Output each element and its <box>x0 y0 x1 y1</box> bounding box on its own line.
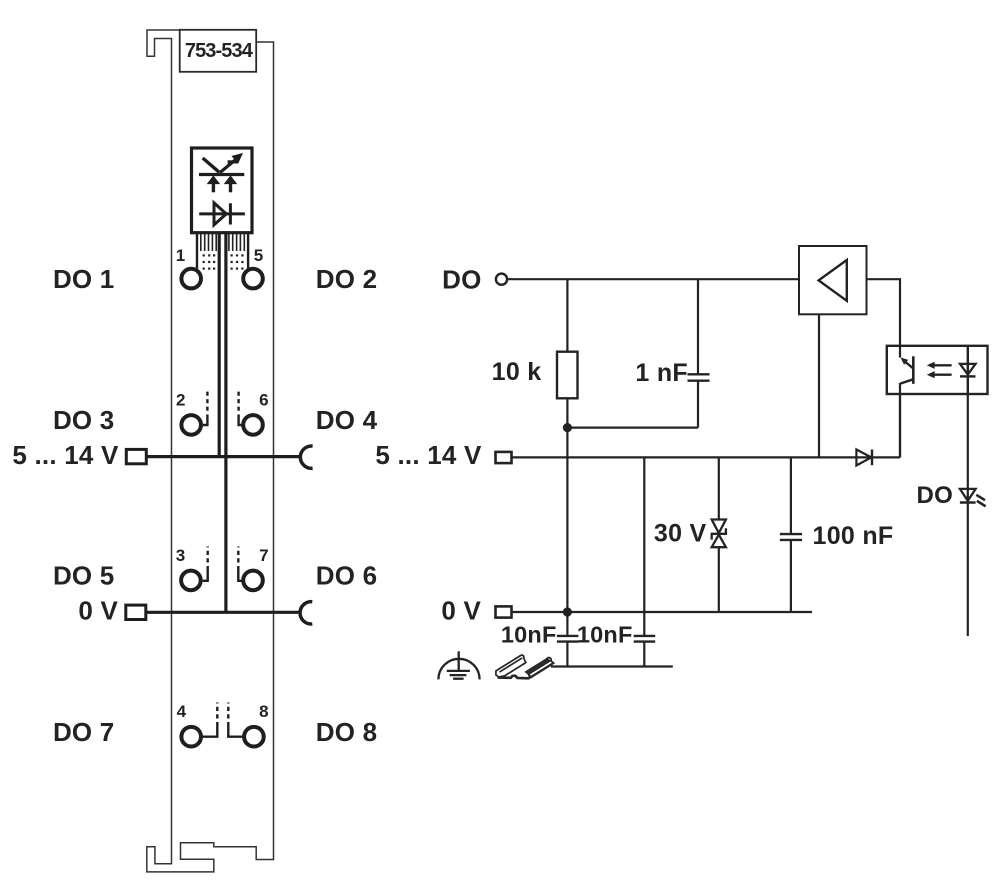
wire optocoupler LED down <box>967 394 969 503</box>
wire 100nF upper <box>790 457 792 534</box>
pin 5 terminal <box>243 246 263 288</box>
wire 100nF lower <box>790 540 792 612</box>
wire 1nF lower <box>697 381 699 428</box>
module outline 753-534 <box>147 30 274 872</box>
svg-text:0 V: 0 V <box>78 596 118 626</box>
ground line <box>551 665 673 667</box>
14V pass-through arc <box>300 446 312 468</box>
svg-text:DO 7: DO 7 <box>53 717 114 747</box>
svg-text:1 nF: 1 nF <box>635 359 688 387</box>
wire pin1 <box>196 233 198 269</box>
svg-text:1: 1 <box>176 246 185 265</box>
wire node horizontal to 1nF <box>567 427 698 429</box>
svg-text:DO 5: DO 5 <box>53 561 114 591</box>
bus bar left <box>218 233 221 458</box>
pin 8 terminal with switch hook <box>228 702 268 747</box>
optocoupler LED <box>960 346 976 394</box>
wire 10k branch upper <box>566 279 568 352</box>
svg-text:2: 2 <box>176 391 185 410</box>
suppressor diode 30V <box>654 519 726 547</box>
earth ground symbol <box>438 651 479 679</box>
capacitor 100nF <box>780 522 894 550</box>
wire amp bottom to 14V rail <box>818 314 820 457</box>
wire 10k lower <box>566 398 568 427</box>
svg-text:DO 3: DO 3 <box>53 405 114 435</box>
pin 4 terminal with switch hook <box>177 702 218 747</box>
DO input terminal circle <box>496 274 507 285</box>
svg-text:753-534: 753-534 <box>185 40 254 62</box>
pin 6 terminal with switch hook <box>239 391 269 435</box>
pin 3 terminal with switch hook <box>176 546 208 590</box>
terminal square 0V schematic <box>496 606 512 617</box>
LED DO output indicator <box>917 482 986 509</box>
LED indicator box U-LED <box>192 148 253 233</box>
wire DO horizontal <box>507 278 799 280</box>
junction node 0V <box>563 607 572 616</box>
wire pin5 <box>247 233 249 269</box>
svg-text:7: 7 <box>259 546 268 565</box>
optocoupler box <box>887 346 988 394</box>
svg-text:0 V: 0 V <box>441 596 481 626</box>
svg-text:10 k: 10 k <box>492 358 542 386</box>
wire 14V to 0V link <box>643 457 645 612</box>
0V rail module <box>146 611 300 614</box>
svg-text:5 ... 14 V: 5 ... 14 V <box>375 440 482 470</box>
14V rail module <box>146 455 299 458</box>
svg-text:DO 2: DO 2 <box>316 264 377 294</box>
svg-text:5: 5 <box>254 246 263 265</box>
diode on 14V rail <box>856 450 872 466</box>
LED reflection symbol <box>199 154 244 193</box>
pin 7 terminal with switch hook <box>238 546 268 590</box>
wire amp output to optocoupler top <box>867 279 901 346</box>
14V rail schematic <box>512 456 901 458</box>
label box 753-534 <box>180 30 257 72</box>
wire TVS lower <box>718 547 720 612</box>
op-amp buffer box <box>799 246 867 314</box>
svg-text:30 V: 30 V <box>654 519 707 547</box>
DIN rail symbol <box>496 655 554 678</box>
bus bar right <box>224 233 227 612</box>
svg-text:DO 4: DO 4 <box>316 405 378 435</box>
svg-text:3: 3 <box>176 546 185 565</box>
svg-text:8: 8 <box>259 702 268 721</box>
terminal square 14V module <box>126 449 146 463</box>
wire bundle below LED box <box>201 233 245 251</box>
wire LED down dead end <box>967 503 969 637</box>
svg-text:DO: DO <box>442 264 481 294</box>
resistor 10k <box>492 352 578 399</box>
svg-text:DO 6: DO 6 <box>316 561 377 591</box>
svg-text:6: 6 <box>259 391 268 410</box>
LED diode symbol <box>199 203 245 225</box>
svg-text:5 ... 14 V: 5 ... 14 V <box>12 440 119 470</box>
pin 2 terminal with switch hook <box>176 391 207 435</box>
terminal square 0V module <box>126 605 146 619</box>
capacitor 10nF left <box>501 612 579 667</box>
svg-text:10nF: 10nF <box>501 622 557 648</box>
wire bundle dots <box>203 254 244 269</box>
pin 1 terminal <box>176 246 201 288</box>
optocoupler light arrows <box>927 362 952 379</box>
capacitor 1nF <box>635 359 709 387</box>
wire TVS upper <box>718 457 720 519</box>
svg-text:4: 4 <box>177 702 187 721</box>
wire 14V corner up to optocoupler <box>899 394 901 457</box>
junction node 10k/1nF <box>563 423 572 432</box>
wire node to 0V crossing 14V rail <box>566 428 568 612</box>
capacitor 10nF right <box>577 612 655 667</box>
svg-text:DO 1: DO 1 <box>53 264 114 294</box>
svg-text:100 nF: 100 nF <box>813 522 894 550</box>
0V rail schematic <box>512 611 813 613</box>
0V pass-through arc <box>300 602 312 624</box>
svg-text:10nF: 10nF <box>577 622 633 648</box>
terminal square 14V schematic <box>496 452 512 463</box>
wire 1nF branch upper <box>697 279 699 374</box>
svg-text:DO 8: DO 8 <box>316 717 377 747</box>
optocoupler phototransistor <box>900 346 913 458</box>
svg-text:DO: DO <box>917 482 954 509</box>
